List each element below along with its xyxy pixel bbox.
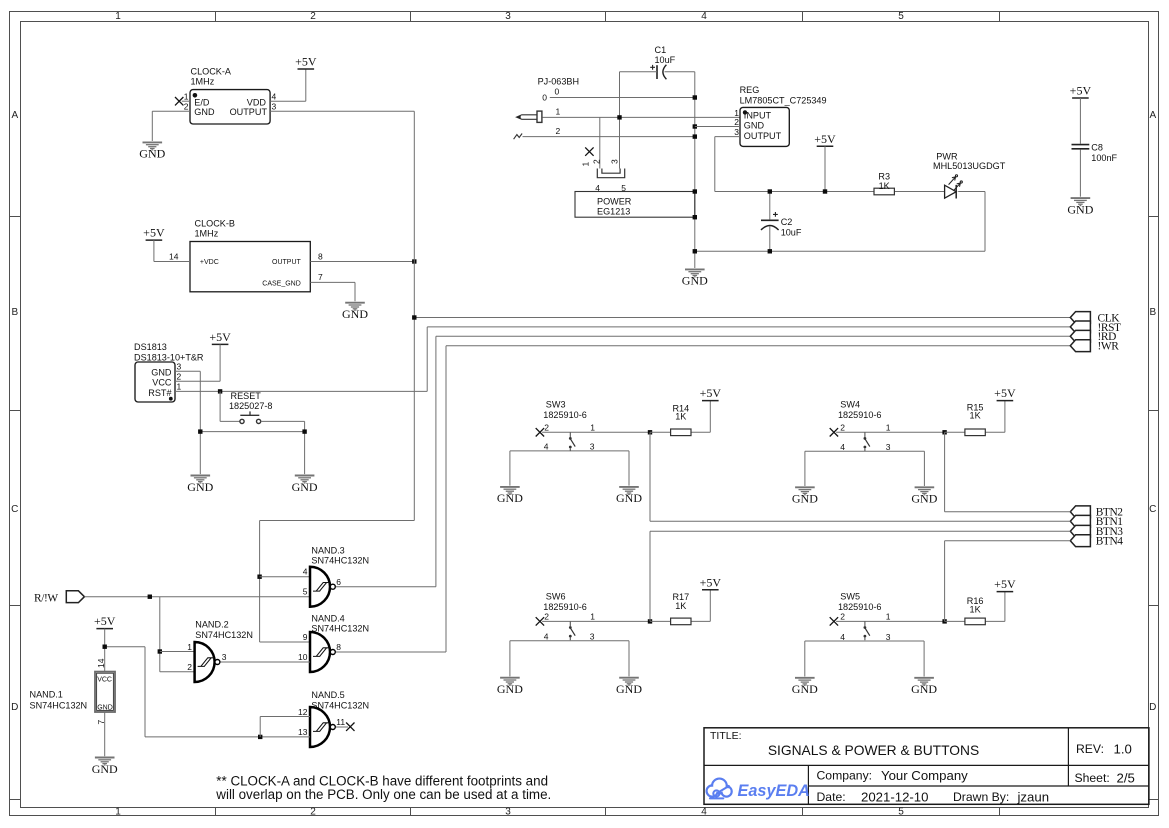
svg-text:4: 4 <box>544 632 549 642</box>
wire SW6 pin2-pin1 line <box>542 620 650 622</box>
svg-text:3: 3 <box>610 159 620 164</box>
wire NAND.2 output to NAND.4 pin 10 <box>220 661 310 663</box>
wire CLOCK-A pin 4 to +5V <box>270 100 306 102</box>
svg-text:GND: GND <box>497 491 523 505</box>
svg-text:VCC: VCC <box>97 677 112 684</box>
svg-text:REG: REG <box>740 85 760 95</box>
junction return to trunk <box>693 249 697 253</box>
wire SW6 pin3 to ground <box>628 641 630 677</box>
op-amp-style NAND gate NAND.4 body <box>310 632 335 672</box>
svg-text:3: 3 <box>505 11 511 22</box>
svg-text:1K: 1K <box>675 601 686 611</box>
svg-text:1: 1 <box>581 162 591 167</box>
svg-text:2: 2 <box>187 662 192 672</box>
wire up to +5V (R15) <box>1004 401 1006 433</box>
net flag !RD <box>1070 330 1090 342</box>
wire SW5 pin2-pin1 line <box>836 620 945 622</box>
wire C1 right <box>665 71 695 73</box>
svg-text:GND: GND <box>194 107 215 117</box>
junction C1 left to input line <box>617 115 621 119</box>
wire SW5 up to button net <box>944 541 946 622</box>
svg-text:GND: GND <box>342 307 368 321</box>
svg-text:1MHz: 1MHz <box>191 77 215 87</box>
+5V power (CLOCK-A) <box>295 55 317 69</box>
svg-text:4: 4 <box>701 807 707 818</box>
svg-text:+5V: +5V <box>143 226 165 240</box>
svg-text:1: 1 <box>187 642 192 652</box>
wire CLOCK-A pin 2 to ground <box>152 110 190 112</box>
svg-text:+5V: +5V <box>94 614 116 628</box>
ground (SW4 pin 4) <box>795 487 815 495</box>
wire down to NAND.2 inputs <box>159 597 161 672</box>
junction C2 to return <box>768 249 772 253</box>
junction pin0 to trunk <box>693 95 697 99</box>
resistor R15 <box>965 429 985 436</box>
net flag BTN3 <box>1070 525 1090 537</box>
wire to NAND.5 pin 13 <box>145 736 310 738</box>
jack body symbol <box>597 169 624 178</box>
svg-text:3: 3 <box>177 361 182 371</box>
ground (CLOCK-B) <box>345 303 365 311</box>
svg-text:C: C <box>1149 504 1156 515</box>
svg-text:1: 1 <box>115 11 121 22</box>
power part NAND.1 body <box>95 672 115 712</box>
svg-text:+5V: +5V <box>994 577 1016 591</box>
node BTN2 wire <box>945 511 1071 513</box>
switch SW4 lever/contacts <box>864 432 870 451</box>
svg-text:10uF: 10uF <box>781 228 802 238</box>
svg-text:GND: GND <box>139 147 165 161</box>
net flag !RST <box>1070 321 1090 333</box>
svg-text:+5V: +5V <box>700 575 722 589</box>
wire NAND.1 GND pin to ground <box>104 712 106 756</box>
wire NAND.5 pin 12 vertical <box>259 717 261 737</box>
svg-text:1.0: 1.0 <box>1114 742 1132 757</box>
capacitor C1 <box>650 65 666 79</box>
+5V power (R14) <box>700 386 722 400</box>
svg-text:SW3: SW3 <box>546 400 566 410</box>
+5V power (DS1813) <box>209 330 231 344</box>
svg-text:4: 4 <box>544 442 549 452</box>
wire R14 to +5V corner <box>691 431 710 433</box>
wire SW3 pin2-pin1 line <box>542 431 650 433</box>
junction ground link right <box>302 429 306 433</box>
svg-text:POWER: POWER <box>597 197 632 207</box>
svg-text:GND: GND <box>911 682 937 696</box>
svg-text:SN74HC132N: SN74HC132N <box>311 701 369 711</box>
ground (NAND.1) <box>95 758 115 766</box>
wire CLOCK-B CASE_GND <box>310 281 355 283</box>
svg-text:R/!W: R/!W <box>34 592 58 604</box>
svg-text:RESET: RESET <box>231 391 262 401</box>
svg-text:1: 1 <box>184 91 189 101</box>
svg-text:10: 10 <box>298 652 308 662</box>
svg-text:4: 4 <box>840 442 845 452</box>
svg-text:1825910-6: 1825910-6 <box>838 410 882 420</box>
wire SW6 to R17 <box>650 620 671 622</box>
wire +5V tap <box>824 146 826 191</box>
no-connect X on jack pin 1 <box>585 147 593 155</box>
no-connect X on CLOCK-A pin 1 <box>175 97 183 105</box>
+5V power (R15) <box>994 386 1016 400</box>
ground (SW6 pin 4) <box>500 678 520 686</box>
svg-text:DS1813-10+T&R: DS1813-10+T&R <box>134 353 204 363</box>
svg-text:CLOCK-B: CLOCK-B <box>195 219 235 229</box>
junction REG GND to trunk <box>693 124 697 128</box>
wire CLOCK-B OUTPUT <box>310 261 414 263</box>
wire C1 to jack pin 3 <box>619 72 621 169</box>
resistor R16 <box>965 618 985 625</box>
svg-text:SN74HC132N: SN74HC132N <box>30 701 88 711</box>
svg-text:C8: C8 <box>1091 143 1103 153</box>
svg-text:will overlap on the PCB. Only: will overlap on the PCB. Only one can be… <box>215 787 551 802</box>
svg-text:3: 3 <box>590 442 595 452</box>
junction ground link left <box>198 429 202 433</box>
svg-text:+5V: +5V <box>994 386 1016 400</box>
+5V power (regulator output) <box>814 132 836 146</box>
svg-text:1: 1 <box>115 807 121 818</box>
svg-text:3: 3 <box>272 101 277 111</box>
wire !WR vertical <box>445 346 447 652</box>
net flag BTN4 <box>1070 535 1090 547</box>
svg-text:B: B <box>1149 307 1156 318</box>
switch SW3 lever/contacts <box>569 432 575 451</box>
junction POWER box to trunk bottom <box>693 215 697 219</box>
net flag !WR <box>1070 340 1090 352</box>
svg-text:9: 9 <box>303 632 308 642</box>
no-connect X on SW4 pin 2 <box>830 428 838 436</box>
wire up to +5V (R16) <box>1004 592 1006 622</box>
wire SW6 pin4-pin3 line <box>510 640 629 642</box>
wire R/!W to NAND.3 pin 5 <box>84 596 310 598</box>
svg-text:3: 3 <box>886 632 891 642</box>
resistor R17 <box>671 618 691 625</box>
+5V power (NAND.1) <box>94 614 116 628</box>
wire NAND.5 pin 12 stub <box>260 716 310 718</box>
wire SW5 pin4 to ground <box>804 641 806 677</box>
wire up to +5V (R14) <box>709 401 711 433</box>
node !RST <box>427 326 1070 328</box>
wire to CLOCK-B pin 14 <box>154 261 190 263</box>
svg-text:2021-12-10: 2021-12-10 <box>861 790 928 805</box>
svg-text:TITLE:: TITLE: <box>710 730 742 742</box>
junction NAND.3 pin 4 <box>257 575 261 579</box>
svg-text:5: 5 <box>898 11 904 22</box>
wire SW4 pin3 to ground <box>923 451 925 486</box>
wire +5V branch vertical <box>144 647 146 737</box>
junction POWER box to trunk top <box>693 189 697 193</box>
wire SW5 to R16 <box>945 620 965 622</box>
wire DS1813 VCC stub <box>175 380 220 382</box>
svg-text:+VDC: +VDC <box>200 259 219 266</box>
node BTN1 wire <box>650 520 1070 522</box>
svg-text:NAND.3: NAND.3 <box>311 546 344 556</box>
svg-text:MHL5013UGDGT: MHL5013UGDGT <box>933 161 1006 171</box>
svg-text:3: 3 <box>222 652 227 662</box>
svg-text:2: 2 <box>544 611 549 621</box>
junction sleeve to trunk <box>693 134 697 138</box>
svg-text:Sheet:: Sheet: <box>1075 771 1110 785</box>
wire REG OUTPUT down <box>714 137 716 192</box>
svg-text:!WR: !WR <box>1098 341 1120 353</box>
svg-text:7: 7 <box>318 272 323 282</box>
wire +5V down <box>153 240 155 261</box>
net flag BTN1 <box>1070 515 1090 527</box>
wire R16 to +5V corner <box>985 620 1005 622</box>
svg-text:R3: R3 <box>878 172 890 182</box>
no-connect X on SW5 pin 2 <box>830 617 838 625</box>
svg-text:2: 2 <box>592 159 602 164</box>
wire down to jack pin 2 <box>599 117 601 168</box>
svg-text:D: D <box>11 702 18 713</box>
svg-text:VCC: VCC <box>152 378 172 388</box>
svg-text:GND: GND <box>744 121 765 131</box>
svg-text:SN74HC132N: SN74HC132N <box>311 556 369 566</box>
wire down to ground <box>304 421 306 474</box>
net flag BTN2 <box>1070 506 1090 518</box>
svg-text:5: 5 <box>303 587 308 597</box>
svg-text:A: A <box>11 110 18 121</box>
svg-text:C1: C1 <box>655 45 667 55</box>
svg-text:EG1213: EG1213 <box>597 207 630 217</box>
wire trunk to NAND inputs <box>260 520 415 522</box>
+5V power (R16) <box>994 577 1016 591</box>
svg-text:OUTPUT: OUTPUT <box>230 107 268 117</box>
wire return to ground trunk <box>695 250 985 252</box>
wire +5V to NAND.1 VCC <box>104 629 106 672</box>
wire +5V branch <box>105 646 145 648</box>
svg-text:RST#: RST# <box>148 388 172 398</box>
svg-text:8: 8 <box>318 251 323 261</box>
svg-text:BTN4: BTN4 <box>1096 536 1124 548</box>
node BTN4 wire <box>945 540 1071 542</box>
wire NAND.4 pin 9 stub <box>260 641 310 643</box>
svg-text:8: 8 <box>336 642 341 652</box>
wire DS1813 GND stub <box>175 370 200 372</box>
REG pin marker dot <box>743 110 747 114</box>
ground (SW5 pin 3) <box>914 678 934 686</box>
svg-text:GND: GND <box>1067 202 1093 216</box>
wire jack tip to REG input <box>542 116 740 118</box>
svg-text:GND: GND <box>792 492 818 506</box>
svg-text:jzaun: jzaun <box>1017 790 1050 805</box>
svg-text:1825027-8: 1825027-8 <box>229 401 273 411</box>
title block <box>704 728 1149 805</box>
svg-text:1825910-6: 1825910-6 <box>543 410 587 420</box>
wire +5V rail <box>715 191 945 193</box>
svg-text:+5V: +5V <box>700 386 722 400</box>
svg-text:+5V: +5V <box>295 55 317 69</box>
svg-text:2: 2 <box>310 807 316 818</box>
ground (SW6 pin 3) <box>619 678 639 686</box>
ground (power trunk) <box>685 269 705 277</box>
wire SW3 to R14 <box>650 431 671 433</box>
svg-text:Company:: Company: <box>817 769 873 783</box>
wire NAND.2 pin 1 stub <box>160 651 195 653</box>
svg-text:OUTPUT: OUTPUT <box>744 131 782 141</box>
wire SW3 down to button net <box>649 432 651 521</box>
ground (SW4 pin 3) <box>915 487 935 495</box>
wire LED return vertical <box>984 192 986 252</box>
svg-text:2: 2 <box>840 422 845 432</box>
wire C2 top <box>769 192 771 220</box>
node !RD <box>436 335 1070 337</box>
svg-text:+5V: +5V <box>814 132 836 146</box>
svg-text:1: 1 <box>590 422 595 432</box>
svg-text:2: 2 <box>840 611 845 621</box>
svg-text:4: 4 <box>272 91 277 101</box>
svg-text:1: 1 <box>590 611 595 621</box>
wire SW6 up to button net <box>649 531 651 621</box>
resistor R3 <box>874 188 894 195</box>
wire clock trunk vertical <box>413 111 415 520</box>
resistor R14 <box>671 429 691 436</box>
node CLK <box>414 317 1070 319</box>
wire ground trunk vertical <box>694 72 696 268</box>
DS1813 pin marker dot <box>169 397 173 401</box>
wire DS1813 RST# to !RST <box>175 390 427 392</box>
wire NAND.2 pin 2 stub <box>160 671 195 673</box>
svg-text:NAND.4: NAND.4 <box>311 614 344 624</box>
switch SW6 lever/contacts <box>569 621 575 640</box>
capacitor C2 <box>761 212 779 230</box>
svg-text:1K: 1K <box>675 412 686 422</box>
wire down to ground <box>151 111 153 141</box>
svg-text:13: 13 <box>298 727 308 737</box>
wire SW4 pin2-pin1 line <box>836 431 945 433</box>
node BTN3 wire <box>650 530 1070 532</box>
svg-text:SN74HC132N: SN74HC132N <box>195 630 253 640</box>
svg-text:GND: GND <box>911 492 937 506</box>
svg-text:+5V: +5V <box>209 330 231 344</box>
svg-text:PJ-063BH: PJ-063BH <box>538 77 579 87</box>
svg-text:1K: 1K <box>970 411 981 421</box>
wire jack sleeve line <box>523 136 695 138</box>
svg-text:SW5: SW5 <box>840 592 860 602</box>
net flag CLK <box>1070 312 1090 324</box>
wire C1 left <box>620 71 658 73</box>
wire down to NAND.4 pin 9 <box>259 521 261 643</box>
wire R15 to +5V corner <box>985 431 1005 433</box>
svg-text:2: 2 <box>310 11 316 22</box>
junction +5V branch <box>103 645 107 649</box>
regulator REG LM7805 body <box>740 107 789 146</box>
svg-text:REV:: REV: <box>1076 742 1104 756</box>
wire SW3 pin4-pin3 line <box>510 450 629 452</box>
svg-text:3: 3 <box>886 442 891 452</box>
wire SW5 pin4-pin3 line <box>805 640 924 642</box>
wire SW5 pin3 to ground <box>923 641 925 677</box>
wire SW4 to R15 <box>945 431 965 433</box>
ground (RESET switch) <box>295 476 315 484</box>
wire up to +5V <box>305 69 307 101</box>
+5V power (C8) <box>1070 84 1092 98</box>
wire !RD vertical <box>435 336 437 586</box>
svg-text:B: B <box>11 307 18 318</box>
svg-text:NAND.5: NAND.5 <box>311 690 344 700</box>
svg-text:CASE_GND: CASE_GND <box>262 280 301 287</box>
wire up to +5V (R17) <box>709 590 711 622</box>
junction CLOCK-B output to CLK trunk <box>412 259 416 263</box>
op-amp-style NAND gate NAND.5 body <box>310 707 335 747</box>
capacitor C8 <box>1072 145 1090 149</box>
ground (CLOCK-A) <box>143 142 163 150</box>
switch POWER EG1213 body <box>575 192 695 218</box>
CLOCK-A pin 1 stub <box>182 100 190 102</box>
junction C2 to +5V rail <box>768 189 772 193</box>
wire C2 bottom <box>769 226 771 251</box>
svg-text:NAND.1: NAND.1 <box>30 690 63 700</box>
connector sleeve wave symbol <box>514 133 523 139</box>
junction RST# to RESET switch <box>218 389 222 393</box>
svg-text:GND: GND <box>92 762 118 776</box>
wire REG GND stub <box>695 126 740 128</box>
op-amp-style NAND gate NAND.2 body <box>195 642 220 682</box>
wire LED cathode to corner <box>958 191 985 193</box>
svg-text:GND: GND <box>616 682 642 696</box>
svg-text:VDD: VDD <box>247 98 267 108</box>
ground (SW3 pin 4) <box>500 487 520 495</box>
wire NAND.3 output to !RD <box>336 586 436 588</box>
svg-text:NAND.2: NAND.2 <box>195 620 228 630</box>
svg-text:LM7805CT_C725349: LM7805CT_C725349 <box>740 96 827 106</box>
oscillator CLOCK-A body <box>190 90 270 124</box>
CLOCK-A pin1 polarity dot <box>193 93 198 98</box>
svg-text:4: 4 <box>840 632 845 642</box>
svg-text:INPUT: INPUT <box>744 111 772 121</box>
pushbutton RESET <box>240 411 261 423</box>
junction R/!W <box>148 595 152 599</box>
svg-text:12: 12 <box>298 707 308 717</box>
svg-text:GND: GND <box>187 480 213 494</box>
wire to RESET switch pin <box>220 420 240 422</box>
wire C8 to ground <box>1079 149 1081 196</box>
svg-text:3: 3 <box>734 127 739 137</box>
node !WR <box>446 345 1070 347</box>
wire CLOCK-A OUTPUT <box>270 110 414 112</box>
net flag R/!W <box>66 591 84 603</box>
wire NAND.3 pin 4 stub <box>260 576 310 578</box>
svg-text:DS1813: DS1813 <box>134 342 167 352</box>
svg-text:Your Company: Your Company <box>881 768 968 783</box>
ground (SW3 pin 3) <box>619 487 639 495</box>
junction NAND.2 pin 1 <box>158 649 162 653</box>
svg-text:2: 2 <box>734 117 739 127</box>
svg-text:C: C <box>11 504 18 515</box>
switch SW5 lever/contacts <box>864 621 870 640</box>
junction CLK <box>412 315 416 319</box>
svg-text:A: A <box>1149 110 1156 121</box>
+5V power (R17) <box>700 575 722 589</box>
svg-text:SIGNALS & POWER & BUTTONS: SIGNALS & POWER & BUTTONS <box>768 743 979 758</box>
supervisor U? DS1813 body <box>135 362 175 402</box>
svg-text:+5V: +5V <box>1070 84 1092 98</box>
svg-text:GND: GND <box>682 274 708 288</box>
svg-text:GND: GND <box>151 368 172 378</box>
svg-text:5: 5 <box>898 807 904 818</box>
svg-text:Drawn By:: Drawn By: <box>953 790 1009 804</box>
svg-text:PWR: PWR <box>936 151 958 161</box>
wire down to RESET switch <box>219 391 221 421</box>
LED PWR MHL5013UGDGT <box>945 175 963 199</box>
svg-text:GND: GND <box>616 491 642 505</box>
wire down to ground <box>199 371 201 474</box>
svg-text:D: D <box>1149 702 1156 713</box>
svg-text:14: 14 <box>169 251 179 261</box>
wire +5V to C8 <box>1079 98 1081 144</box>
EasyEDA logo <box>707 779 732 799</box>
oscillator CLOCK-B body <box>190 242 310 292</box>
